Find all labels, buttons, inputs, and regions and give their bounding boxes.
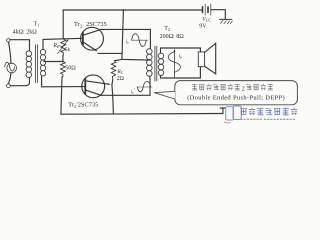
transformer T2 primary winding <box>147 49 153 77</box>
svg-text:RL: RL <box>116 69 123 75</box>
wire: top supply rail <box>63 9 202 11</box>
speaker <box>198 52 204 67</box>
node: rail junction <box>123 9 125 11</box>
ground <box>220 19 233 24</box>
svg-text:5k: 5k <box>65 47 71 53</box>
transistor Tr2 (top 2SC735) <box>81 27 104 50</box>
svg-text:200Ω: 8Ω: 200Ω: 8Ω <box>160 34 185 40</box>
svg-text:2Ω: 2Ω <box>117 76 125 82</box>
wire: T2 secondary top to speaker <box>161 48 201 53</box>
node: center tap junction <box>62 60 64 62</box>
wire: rail down to RL / T2 center tap <box>122 10 124 59</box>
labels <box>13 16 212 109</box>
resistor RL 2ohm <box>111 61 116 80</box>
wire: rail right of battery to ground <box>211 10 226 20</box>
ground rail end stub <box>220 108 225 114</box>
watermark text <box>240 108 297 115</box>
wire: T1 secondary center tap to bias junction <box>44 61 63 63</box>
wire: T1 secondary top to Tr2 base <box>43 38 83 49</box>
callout bubble <box>154 81 297 105</box>
svg-text:ic: ic <box>126 40 129 45</box>
watermark logo <box>224 106 242 123</box>
wire: T1 secondary bottom to Tr2' base <box>42 76 86 87</box>
svg-text:T2: T2 <box>164 26 170 32</box>
svg-text:Tr22SC735: Tr22SC735 <box>74 21 107 28</box>
svg-text:50Ω: 50Ω <box>65 66 76 72</box>
wire: RL bottom to emitter junction and ground rail <box>112 80 114 114</box>
signal source <box>9 42 11 63</box>
battery Vcc <box>203 4 211 15</box>
svg-text:(Double Ended Push-Pull; DEPP): (Double Ended Push-Pull; DEPP) <box>187 94 285 101</box>
svg-text:Tr2′2SC735: Tr2′2SC735 <box>68 102 98 109</box>
bubble text line 1 (CJK) <box>192 84 240 90</box>
resistor RP 5k (variable) <box>61 39 66 56</box>
transistor Tr2' (bottom 2SC735) <box>82 75 105 98</box>
svg-text:2: 2 <box>242 85 245 92</box>
waveform ic' (annotation) <box>137 86 152 88</box>
transformer T2 secondary winding <box>158 53 164 75</box>
transformer T2 core <box>155 46 157 81</box>
svg-text:ic′: ic′ <box>131 89 136 95</box>
input terminal top <box>7 39 10 42</box>
waveform ic (annotation) <box>131 39 147 41</box>
resistor 50ohm <box>61 61 66 76</box>
svg-text:RP: RP <box>52 43 60 49</box>
svg-text:T1: T1 <box>34 21 40 27</box>
svg-text:9V: 9V <box>199 24 207 30</box>
watermark url line <box>241 118 263 120</box>
transformer T1 secondary winding <box>40 49 45 76</box>
wire: 50ohm down to ground rail <box>61 77 62 114</box>
wire: Tr2 emitter to RL column <box>98 52 122 54</box>
wire: T1 primary bottom to bottom terminal <box>11 77 30 85</box>
transformer T1 primary winding <box>26 51 32 78</box>
ground rail <box>61 113 223 116</box>
transformer T1 core <box>35 45 37 83</box>
wire: Tr2 collector to T2 primary top <box>100 29 150 48</box>
svg-text:io: io <box>179 55 182 60</box>
waveform io with arrow (annotation) <box>174 52 176 78</box>
wire: Tr2' collector to T2 primary bottom <box>101 76 150 95</box>
wire: T2 secondary bottom to speaker <box>161 67 201 78</box>
input terminal bottom <box>6 84 10 88</box>
svg-text:VCC: VCC <box>202 16 211 22</box>
wire: RP to center-tap junction <box>62 55 64 61</box>
svg-text:4kΩ: 2kΩ: 4kΩ: 2kΩ <box>13 30 38 36</box>
node: bias chain top corner <box>62 10 64 39</box>
wire: junction to RL top <box>114 59 122 60</box>
wire: junction to T2 center tap <box>122 58 150 61</box>
wire: top terminal to T1 primary <box>10 40 29 51</box>
bubble tail <box>154 91 175 99</box>
